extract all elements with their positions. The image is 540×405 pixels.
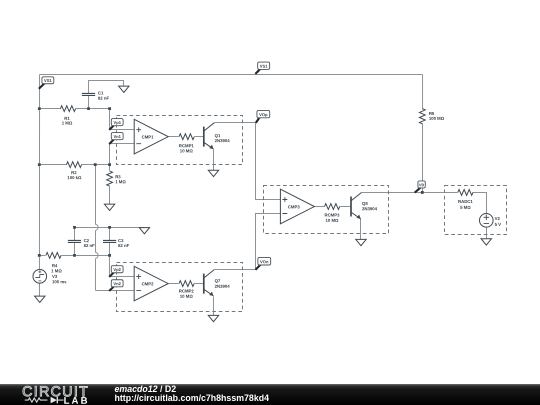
credit text bbox=[115, 385, 269, 403]
label R4 value bbox=[51, 263, 62, 273]
ground Q8 emitter bbox=[356, 239, 366, 245]
svg-text:1 MΩ: 1 MΩ bbox=[62, 120, 73, 125]
dashed box comparator CMP2 module bbox=[116, 262, 242, 311]
dashed box comparator CMP3 module bbox=[263, 185, 388, 233]
wire VOp down to CMP3 + input bbox=[256, 122, 281, 199]
label C2 value bbox=[84, 238, 96, 248]
ground Q7 emitter bbox=[208, 315, 218, 321]
wire Vn1 down to R2/R3 node bbox=[109, 143, 111, 164]
label Q1 value bbox=[215, 133, 231, 143]
junction Vn branch bbox=[94, 163, 97, 166]
svg-text:82 nF: 82 nF bbox=[118, 243, 130, 248]
wire RADC1 to V2 top bbox=[472, 193, 486, 214]
label CMP1 bbox=[142, 134, 155, 139]
svg-text:CMP1: CMP1 bbox=[142, 134, 155, 139]
svg-text:V3: V3 bbox=[52, 274, 58, 279]
wire hop over R4 wire bbox=[95, 252, 98, 258]
CircuitLab logo bbox=[0, 384, 110, 405]
op-amp CMP3 bbox=[280, 189, 314, 224]
wire CMP1 + input bbox=[110, 128, 135, 130]
wire CMP3 output bbox=[314, 206, 324, 208]
svg-text:Vn1: Vn1 bbox=[113, 134, 121, 139]
label C1 value bbox=[98, 91, 110, 101]
junction C2 bottom bbox=[73, 254, 76, 257]
svg-text:10 MΩ: 10 MΩ bbox=[325, 218, 339, 223]
wire node D down to Vp2 bbox=[108, 255, 110, 276]
ground C1 bbox=[119, 86, 129, 92]
wire Q7 collector to VOn bbox=[214, 268, 255, 270]
wire C3 top lead bbox=[108, 227, 110, 240]
junction C2 top bbox=[73, 226, 76, 229]
svg-text:CMP3: CMP3 bbox=[288, 204, 301, 209]
resistor R5 bbox=[419, 109, 425, 124]
wire node A right of R1 bbox=[76, 107, 110, 109]
wire CMP2 + input bbox=[109, 275, 134, 277]
resistor RCMP2 bbox=[179, 281, 194, 287]
label RCMP1 value bbox=[179, 143, 195, 153]
svg-text:Vn2: Vn2 bbox=[113, 281, 121, 286]
svg-text:Vp1: Vp1 bbox=[113, 120, 121, 125]
junction C1 lead on node A bbox=[87, 107, 90, 110]
svg-text:1 MΩ: 1 MΩ bbox=[115, 179, 126, 184]
wire node D left of R4 bbox=[39, 254, 45, 256]
node Vn2 flag bbox=[109, 280, 123, 291]
svg-text:82 nF: 82 nF bbox=[98, 96, 110, 101]
junction rail-R1 node bbox=[38, 107, 41, 110]
svg-text:82 nF: 82 nF bbox=[84, 243, 96, 248]
voltage source V3 bbox=[33, 270, 47, 284]
svg-text:VD: VD bbox=[419, 183, 425, 187]
wire Q1 collector to VOp bbox=[215, 121, 256, 123]
wire R5 bottom lead to VD node bbox=[422, 124, 424, 193]
ground R3 bbox=[104, 204, 114, 210]
wire CMP1 output bbox=[169, 135, 179, 137]
svg-text:LAB: LAB bbox=[64, 396, 90, 405]
svg-text:VS1: VS1 bbox=[44, 78, 52, 83]
node VOp flag bbox=[256, 110, 270, 123]
wire RCMP2 to Q7 base bbox=[194, 282, 203, 284]
wire C2 top lead bbox=[73, 227, 75, 240]
capacitor C3 bbox=[103, 240, 116, 242]
junction C3 top bbox=[108, 226, 111, 229]
node VS1 flag left rail bbox=[39, 77, 54, 89]
wire Q1 emitter to ground bbox=[213, 149, 215, 170]
svg-text:VOn: VOn bbox=[260, 259, 269, 264]
wire VOn up to CMP3 - input bbox=[255, 213, 280, 269]
ground V2 bbox=[481, 239, 491, 245]
dashed box ADC module bbox=[444, 186, 506, 235]
label RADC1 value bbox=[458, 199, 473, 210]
svg-text:VS1: VS1 bbox=[260, 64, 268, 69]
svg-text:2N3904: 2N3904 bbox=[215, 284, 231, 289]
svg-text:5 MΩ: 5 MΩ bbox=[460, 205, 471, 210]
transistor Q7 bbox=[204, 270, 215, 296]
wire C1 bottom lead bbox=[88, 95, 90, 108]
node Vp1 flag bbox=[109, 119, 123, 130]
svg-text:2N3904: 2N3904 bbox=[362, 206, 378, 211]
dashed box comparator CMP1 module bbox=[117, 115, 243, 164]
svg-text:Vp2: Vp2 bbox=[113, 267, 121, 272]
capacitor C1 bbox=[82, 93, 95, 95]
label RCMP2 value bbox=[179, 288, 195, 298]
svg-text:V2: V2 bbox=[495, 216, 501, 221]
svg-text:100 MΩ: 100 MΩ bbox=[429, 116, 445, 121]
wire Q7 emitter to ground bbox=[212, 296, 214, 315]
junction rail-R2 node bbox=[38, 163, 41, 166]
label R3 value bbox=[115, 174, 126, 184]
svg-text:2N3904: 2N3904 bbox=[215, 138, 231, 143]
wire Q8 collector to RADC1 bbox=[362, 192, 458, 194]
wire node B left of R2 bbox=[40, 163, 67, 165]
resistor R3 bbox=[107, 171, 113, 186]
resistor R1 bbox=[60, 106, 75, 112]
label RCMP3 value bbox=[324, 213, 340, 223]
svg-text:CMP2: CMP2 bbox=[142, 281, 155, 286]
wire node B right of R2 bbox=[82, 163, 110, 165]
label C3 value bbox=[118, 238, 130, 248]
wire C2-C3 top to ground bbox=[74, 226, 144, 228]
wire VS1 top rail bbox=[40, 73, 423, 75]
svg-text:100 kΩ: 100 kΩ bbox=[67, 175, 82, 180]
wire node A left of R1 bbox=[40, 107, 61, 109]
resistor RCMP3 bbox=[324, 204, 339, 210]
ground V3 bbox=[35, 296, 45, 302]
junction R5-VD node bbox=[421, 191, 424, 194]
transistor Q8 bbox=[351, 193, 362, 219]
wire RCMP3 to Q8 base bbox=[339, 206, 350, 208]
wire V2 bottom to ground bbox=[485, 228, 487, 239]
label CMP3 bbox=[288, 204, 301, 209]
label R5 value bbox=[429, 111, 445, 121]
svg-text:10 MΩ: 10 MΩ bbox=[180, 294, 194, 299]
wire VS1 left rail bbox=[38, 74, 40, 269]
resistor R4 bbox=[46, 252, 61, 258]
voltage source V2 bbox=[479, 214, 493, 228]
footer bar bbox=[0, 384, 540, 405]
wire RCMP1 to Q1 base bbox=[195, 135, 204, 137]
resistor RADC1 bbox=[458, 190, 473, 196]
svg-text:VOp: VOp bbox=[259, 112, 268, 117]
op-amp CMP2 bbox=[134, 266, 168, 301]
svg-text:Q7: Q7 bbox=[215, 278, 221, 283]
label V2 value bbox=[495, 216, 502, 227]
svg-text:5 V: 5 V bbox=[495, 222, 502, 227]
wire V3 bottom lead to ground bbox=[38, 283, 40, 296]
junction C3 bottom node D bbox=[108, 254, 111, 257]
label R1 value bbox=[62, 116, 73, 126]
label Q8 value bbox=[362, 201, 378, 211]
junction rail-R4 node bbox=[38, 254, 41, 257]
node VS1 flag top rail bbox=[255, 62, 269, 74]
label CMP2 bbox=[142, 281, 155, 286]
capacitor C2 bbox=[68, 240, 81, 242]
op-amp CMP1 bbox=[134, 119, 168, 154]
resistor RCMP1 bbox=[179, 134, 194, 140]
wire R3 top lead bbox=[109, 164, 111, 170]
label V3 value bbox=[52, 274, 67, 284]
svg-text:RCMP3: RCMP3 bbox=[324, 213, 340, 218]
wire hop over C2-C3 top wire bbox=[95, 224, 98, 230]
ground C2-C3 bbox=[139, 228, 149, 234]
svg-text:RADC1: RADC1 bbox=[458, 199, 473, 204]
wire node D right of R4 bbox=[61, 254, 109, 256]
label R2 value bbox=[67, 170, 82, 180]
svg-text:1 MΩ: 1 MΩ bbox=[51, 268, 62, 273]
node VD flag bbox=[415, 181, 426, 193]
wire Vn net vertical with hops bbox=[94, 164, 96, 290]
junction R2-R3-Vn1 node bbox=[108, 163, 111, 166]
wire R3 bottom lead to ground bbox=[108, 186, 110, 204]
wire CMP2 output bbox=[168, 282, 178, 284]
wire C2 bottom lead bbox=[73, 242, 75, 255]
node VOn flag bbox=[255, 257, 270, 269]
wire C3 bottom lead bbox=[108, 242, 110, 255]
wire CMP1 - input bbox=[110, 142, 135, 144]
label Q7 value bbox=[215, 278, 231, 289]
resistor R2 bbox=[66, 162, 81, 168]
wire CMP2 - input from Vn net bbox=[95, 289, 134, 291]
ground Q1 emitter bbox=[208, 170, 218, 176]
svg-text:10 MΩ: 10 MΩ bbox=[180, 148, 194, 153]
transistor Q1 bbox=[204, 123, 215, 149]
wire C1 top lead to ground bbox=[89, 80, 124, 93]
wire Q8 emitter to ground bbox=[359, 219, 361, 240]
node Vp2 flag bbox=[109, 266, 123, 277]
svg-text:Q8: Q8 bbox=[362, 201, 368, 206]
svg-text:100 ms: 100 ms bbox=[52, 279, 67, 284]
junction node A corner bbox=[108, 107, 111, 110]
svg-text:RCMP2: RCMP2 bbox=[179, 288, 195, 293]
node Vn1 flag bbox=[109, 133, 123, 145]
wire R5 top lead bbox=[422, 75, 424, 109]
wire node A down to Vp1 bbox=[109, 108, 111, 129]
